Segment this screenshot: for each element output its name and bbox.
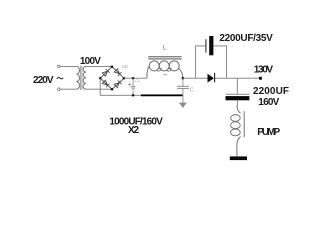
svg-text:KD: KD bbox=[122, 64, 128, 69]
wire branch down to 2200UF/160V bbox=[236, 78, 238, 94]
node bridge bottom bbox=[111, 88, 114, 91]
svg-text:100V: 100V bbox=[80, 56, 101, 67]
wire diode to output bbox=[215, 77, 260, 79]
capacitor C1 bbox=[132, 78, 134, 86]
diode lower-right bbox=[114, 80, 121, 87]
dash label under L bbox=[163, 74, 167, 76]
pump coil core line bbox=[243, 111, 245, 137]
diode upper-left bbox=[102, 69, 109, 76]
wire primary top lead bbox=[60, 65, 76, 67]
terminal circle bottom bbox=[58, 88, 61, 91]
wire bridge right to C1 node bbox=[124, 77, 147, 79]
capacitor 2200UF/35V bbox=[205, 39, 207, 52]
wire primary bottom lead bbox=[60, 88, 76, 90]
node L output bbox=[182, 77, 185, 80]
inductor PUMP coil bbox=[237, 105, 241, 113]
ground arrow bbox=[179, 103, 187, 108]
node C1 bottom bbox=[132, 94, 135, 97]
diode upper-right bbox=[114, 68, 121, 75]
transformer core bbox=[79, 66, 81, 90]
diode D1 bbox=[208, 74, 215, 83]
inductor L core bars bbox=[148, 56, 181, 58]
inductor L coil bbox=[147, 66, 149, 78]
plus sign of C1 bbox=[128, 84, 131, 86]
svg-text:X2: X2 bbox=[128, 125, 139, 136]
terminal circle top bbox=[58, 65, 61, 68]
svg-text:C1: C1 bbox=[135, 79, 140, 83]
node bridge top bbox=[111, 66, 114, 69]
node C1 top bbox=[132, 77, 135, 80]
transformer T1 secondary winding bbox=[83, 66, 86, 89]
svg-text:2200UF/35V: 2200UF/35V bbox=[219, 33, 273, 44]
wire ground bus thick bbox=[141, 94, 183, 96]
svg-text:2200UF: 2200UF bbox=[253, 86, 289, 97]
node bridge left bbox=[99, 77, 102, 80]
wire ground bus thin bbox=[100, 94, 141, 96]
wire secondary bottom to bridge bbox=[86, 88, 112, 90]
transformer T1 primary winding bbox=[76, 66, 79, 89]
ground bar bbox=[230, 156, 247, 160]
svg-text:130V: 130V bbox=[254, 65, 274, 76]
capacitor 2200UF/160V bbox=[226, 93, 250, 95]
node bridge right bbox=[123, 77, 126, 80]
svg-text:160V: 160V bbox=[258, 97, 279, 108]
svg-text:PUMP: PUMP bbox=[257, 127, 280, 138]
svg-text:C: C bbox=[190, 88, 194, 94]
wire L output to diode bbox=[183, 77, 208, 79]
capacitor C branch bbox=[182, 78, 184, 86]
AC tilde symbol bbox=[57, 77, 63, 78]
wire secondary top to bridge bbox=[86, 65, 112, 67]
output terminal square bbox=[259, 77, 262, 80]
wire branch up to top capacitor bbox=[196, 46, 206, 78]
svg-text:220V: 220V bbox=[33, 75, 54, 86]
bridge rectifier diamond bbox=[100, 67, 124, 90]
wire bridge left corner down to bus bbox=[99, 78, 101, 95]
diode lower-left bbox=[102, 80, 109, 87]
